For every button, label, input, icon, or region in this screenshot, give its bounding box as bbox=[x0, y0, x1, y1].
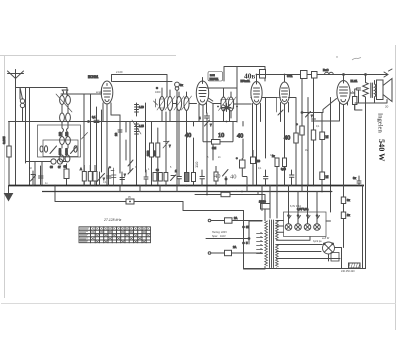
component row: resistor n bbox=[164, 173, 168, 182]
component row: capacitor x bbox=[264, 170, 268, 186]
dial lamp 2 bbox=[295, 215, 302, 231]
T1 secondary HT winding bbox=[276, 221, 341, 269]
field coil (zigzag) bbox=[363, 75, 369, 269]
svg-text:EL11: EL11 bbox=[351, 79, 358, 83]
coupling coil pair bbox=[174, 92, 192, 118]
svg-text:40: 40 bbox=[214, 173, 221, 180]
component row: resistor m bbox=[156, 169, 162, 181]
svg-text:10: 10 bbox=[218, 132, 224, 139]
wire: ECH81 cathode/screen leads bbox=[103, 103, 120, 186]
electrolytic 40 (a) bbox=[185, 122, 194, 173]
component row: trimmer f bbox=[97, 172, 105, 186]
band filter inner box bbox=[43, 140, 78, 157]
antenna bbox=[8, 70, 24, 88]
dial lamp 1 bbox=[285, 215, 292, 231]
electrolytic 10 (b) bbox=[218, 132, 224, 139]
component row: resistor 10 w bbox=[251, 150, 261, 186]
svg-text:40: 40 bbox=[284, 135, 290, 142]
capacitor 0,1 bbox=[88, 116, 99, 123]
component row: electrolytic h bbox=[109, 165, 116, 186]
component 3x right of bus bbox=[353, 176, 361, 186]
svg-text:ampl: ampl bbox=[96, 91, 102, 94]
mains fuse hatched bbox=[349, 263, 361, 268]
wire: IF2 to EFM11 bbox=[234, 103, 252, 105]
component row: resistor e bbox=[93, 165, 97, 186]
trimmer arrow x84 bbox=[82, 94, 88, 186]
dial lamp box bbox=[284, 207, 327, 237]
wire: EBF11 top cap and screen bbox=[203, 67, 238, 89]
svg-text:40: 40 bbox=[237, 133, 243, 140]
component row: capacitor i bbox=[120, 172, 125, 186]
wire: AVC rail continuation bbox=[150, 121, 237, 123]
resistor x343 upper bbox=[341, 197, 350, 204]
wire: x330 long vertical bbox=[330, 98, 332, 213]
junction dots detector bbox=[217, 106, 238, 123]
component row: resistor r bbox=[192, 167, 196, 186]
component row: capacitor g bbox=[107, 168, 112, 186]
oscillator coil assembly bbox=[132, 103, 144, 186]
tube EFM11 bbox=[241, 79, 263, 105]
electrolytic 40 (d) bbox=[284, 135, 290, 142]
resistor box x313 bbox=[311, 130, 315, 186]
trimmer 7 at x166 bbox=[163, 112, 171, 186]
resistor 1000 top bbox=[0, 0, 1, 1]
svg-text:+: + bbox=[296, 122, 298, 126]
wire: B+ top link y66 bbox=[224, 67, 265, 82]
ground bus main bbox=[9, 185, 365, 187]
grid resistor x313 bbox=[312, 77, 316, 130]
wire: speaker return y103 bbox=[355, 100, 387, 111]
wire: y201 right end drop bbox=[183, 202, 244, 211]
fuse 2A top bbox=[211, 216, 263, 223]
wire: lamp box feeds bbox=[326, 220, 331, 222]
svg-text:8M: 8M bbox=[212, 146, 217, 150]
dial lamp 4 bbox=[314, 215, 321, 231]
capacitor 4p bbox=[199, 113, 210, 126]
svg-text:0,1: 0,1 bbox=[92, 116, 96, 119]
wire: x359 drop bbox=[355, 89, 359, 103]
mains terminals bbox=[206, 219, 211, 254]
wire: grid line to ECH81 bbox=[61, 93, 102, 95]
svg-text:10300: 10300 bbox=[66, 148, 69, 155]
wire: vertical x90 x96 bbox=[91, 94, 97, 186]
wire: detector out bbox=[213, 88, 237, 122]
rectifier tube circle bbox=[323, 242, 335, 254]
wire: x343 to transformer area bbox=[343, 204, 345, 248]
svg-text:20: 20 bbox=[114, 132, 118, 136]
antenna socket plugs bbox=[20, 88, 25, 108]
tube EF11 bbox=[280, 74, 293, 104]
output transformer bbox=[371, 81, 376, 104]
component row: resistor c bbox=[82, 165, 86, 186]
capacitor + x302 bbox=[296, 122, 304, 186]
wire: IF1 to EBF11 grid bbox=[173, 103, 197, 105]
padder trimmers oscillator bbox=[126, 103, 146, 172]
component row: resistor y bbox=[272, 155, 279, 186]
svg-text:RsO: RsO bbox=[323, 68, 329, 72]
svg-text:M: M bbox=[326, 135, 329, 139]
svg-text:3000: 3000 bbox=[147, 150, 150, 156]
wire: antenna top horizontal bbox=[16, 87, 68, 89]
wire: third rail y194.5 bbox=[195, 192, 265, 195]
resistor 0M x322 bbox=[320, 113, 329, 173]
wire: x302 divider bbox=[301, 78, 303, 126]
component row: capacitor za bbox=[290, 170, 294, 186]
svg-text:540 W: 540 W bbox=[377, 139, 386, 162]
power transformer T1 core bbox=[270, 220, 274, 268]
svg-text:M: M bbox=[326, 175, 329, 179]
ground bbox=[5, 186, 13, 201]
component row: capacitor k bbox=[144, 170, 148, 186]
wire: x151 x157 verticals bbox=[152, 122, 158, 186]
component row: capacitor p bbox=[175, 169, 181, 186]
voltage selector verticals bbox=[243, 211, 250, 254]
svg-text:2A: 2A bbox=[234, 216, 237, 220]
cathode resistor EL11 bbox=[350, 93, 357, 110]
wire: y112 link and diagonal to EL11 cathode bbox=[302, 99, 337, 113]
wire: x345 below tube bbox=[343, 105, 345, 198]
trimmer arrows in filter bbox=[40, 146, 77, 154]
scan scratch top right bbox=[352, 58, 361, 61]
capacitor at x120 bbox=[114, 115, 122, 173]
wavechange table bbox=[79, 227, 151, 243]
wire: interstage rail y97 bbox=[251, 98, 296, 134]
antenna coil L1 bbox=[56, 88, 72, 114]
misc tiny value labels bbox=[29, 91, 354, 199]
wire: lamp feed verticals bbox=[289, 186, 318, 215]
svg-text:byrid pa: byrid pa bbox=[313, 240, 322, 243]
coil L4 bottom ovals bbox=[59, 155, 70, 162]
component row: capacitor b bbox=[39, 166, 44, 186]
IF transformer 1 primary bbox=[157, 88, 167, 122]
svg-text:a.Z M: a.Z M bbox=[322, 236, 330, 240]
svg-text:1.10: 1.10 bbox=[139, 106, 144, 109]
svg-text:10500: 10500 bbox=[59, 148, 62, 155]
svg-text:3000: 3000 bbox=[153, 150, 156, 156]
svg-text:+: + bbox=[109, 165, 111, 169]
capacitor 05 bbox=[64, 164, 70, 186]
resistor 3000 a bbox=[147, 143, 154, 157]
svg-text:ECH81: ECH81 bbox=[88, 75, 99, 79]
wire: right border verticals bbox=[362, 186, 364, 269]
component row: resistor d bbox=[80, 165, 92, 186]
resistor 10000 mains divider bbox=[259, 195, 270, 222]
second bus bbox=[42, 191, 332, 193]
wire: bottom return line bbox=[244, 268, 366, 270]
wire: EL11 grid/cathode leads bbox=[314, 102, 348, 197]
svg-text:A: A bbox=[80, 167, 82, 171]
wire: lower link to y201 bbox=[55, 186, 183, 202]
wire: EBF11 cathode leads down bbox=[199, 103, 213, 160]
svg-text:Spar: 110V: Spar: 110V bbox=[212, 235, 226, 238]
component row: capacitor s bbox=[200, 170, 204, 186]
wire: AVC rail y121 bbox=[9, 121, 151, 123]
wire: B+ top rail y74.5 bbox=[257, 74, 389, 76]
coil L2 upper ovals bbox=[59, 113, 70, 136]
component row: trimmer j bbox=[124, 169, 133, 178]
IF transformer 2 primary bbox=[219, 88, 229, 122]
svg-text:110: 110 bbox=[194, 161, 199, 168]
tube ECH81 bbox=[88, 75, 113, 104]
arrow end of rail bbox=[384, 69, 392, 77]
scan speck bbox=[336, 56, 337, 57]
wire: x176 x184 verticals to bus bbox=[179, 118, 187, 172]
svg-text:40: 40 bbox=[230, 174, 237, 181]
component row: resistor q dark bbox=[185, 173, 189, 182]
wire: rectifier output bbox=[329, 248, 342, 269]
wire: EF11 leads bbox=[281, 75, 289, 186]
svg-text:2A: 2A bbox=[233, 245, 236, 249]
wire: vertical x101 bbox=[101, 88, 103, 172]
table header hatch bbox=[80, 228, 150, 243]
capacitor 05 on y201 line bbox=[126, 199, 134, 204]
svg-text:2.109: 2.109 bbox=[116, 70, 123, 74]
component row: trimmer arrow a bbox=[31, 171, 36, 186]
svg-text:0,05: 0,05 bbox=[281, 168, 286, 171]
svg-text:1000: 1000 bbox=[155, 91, 161, 94]
component row: switch u bbox=[223, 170, 229, 186]
svg-text:Ingelen: Ingelen bbox=[377, 113, 384, 133]
IF transformer 2 secondary bbox=[221, 92, 236, 118]
svg-text:37: 37 bbox=[246, 225, 250, 229]
trimmer below EF11 bbox=[277, 98, 284, 116]
speaker bbox=[377, 79, 393, 102]
svg-text:20: 20 bbox=[385, 105, 389, 109]
junction dots on buses bbox=[54, 185, 323, 203]
trimmer 7 x308 bbox=[306, 98, 314, 186]
svg-text:EFm11: EFm11 bbox=[241, 79, 251, 83]
component row: trimmer o bbox=[171, 175, 176, 181]
trimmer 7 below EBF11 bbox=[205, 120, 213, 195]
capacitor feedback box bbox=[260, 70, 266, 79]
resistor box on rail bbox=[312, 72, 318, 79]
cord loop bbox=[331, 253, 339, 262]
svg-text:1M: 1M bbox=[305, 149, 308, 152]
band filter outer box bbox=[38, 125, 81, 157]
resistor x343 lower bbox=[341, 212, 350, 219]
wire: mains mid bbox=[210, 238, 250, 240]
fuse bottom bbox=[211, 245, 263, 256]
wire: antenna lead down to ground bus bbox=[15, 87, 17, 186]
diode plates EBF11 bbox=[208, 98, 213, 104]
electrolytic 40 (c) bbox=[237, 122, 243, 159]
resistor 4ohm x296 bbox=[294, 133, 298, 186]
wire: ECH81 grid top line y81 bbox=[113, 81, 173, 83]
volume potentiometer bbox=[26, 159, 68, 186]
wire: filter connections bbox=[62, 122, 68, 148]
svg-text:40: 40 bbox=[185, 132, 191, 139]
wire: EFM11 plate top bbox=[256, 75, 258, 82]
capacitor 0u near IF bbox=[0, 0, 1, 1]
table X marks bbox=[91, 231, 150, 243]
svg-text:EBF11: EBF11 bbox=[210, 77, 219, 81]
wire: input verticals bbox=[23, 88, 30, 186]
svg-text:6,3V 0,2A: 6,3V 0,2A bbox=[290, 205, 301, 208]
capacitor 0.005 input bbox=[2, 122, 11, 186]
wire: ECH81 plate rail y74 bbox=[112, 75, 168, 98]
wire: drops between buses bbox=[120, 186, 332, 219]
resistor 8M bbox=[203, 122, 233, 150]
wire: EFM11 leads down bbox=[253, 98, 266, 186]
svg-text:240·250·220: 240·250·220 bbox=[341, 270, 355, 273]
IF transformer 1 secondary bbox=[165, 90, 175, 122]
fuse RsO on rail bbox=[323, 68, 366, 75]
svg-text:0.005: 0.005 bbox=[2, 136, 6, 144]
component row: resistor t bbox=[214, 166, 218, 186]
dial lamp 3 bbox=[304, 215, 311, 231]
choke box on rail bbox=[301, 71, 308, 79]
T1 primary winding bbox=[244, 221, 268, 269]
wire: EL11 plate from rail bbox=[343, 75, 345, 81]
resistor 0M x322 lower bbox=[320, 172, 329, 186]
tube EL11 bbox=[337, 79, 358, 105]
component row: electrolytic v bbox=[236, 156, 247, 186]
resistor 100 on y194.5 bbox=[221, 192, 230, 196]
tube EBF11 bbox=[196, 72, 222, 106]
component row: resistor l bbox=[153, 173, 157, 182]
svg-text:1.15: 1.15 bbox=[139, 125, 144, 128]
component row: resistor z bbox=[281, 158, 287, 186]
resistor 3000 b bbox=[153, 143, 160, 157]
coupling capacitor EL11 bbox=[357, 88, 361, 90]
coil L3 middle ovals bbox=[59, 137, 70, 156]
svg-text:27-128 kHz: 27-128 kHz bbox=[103, 218, 122, 222]
trimmer capacitors IF1 bbox=[154, 87, 158, 107]
detector star mark bbox=[222, 104, 231, 112]
grid cap connector 3x bbox=[175, 82, 184, 185]
svg-text:Heizsg: 220V: Heizsg: 220V bbox=[212, 231, 227, 234]
